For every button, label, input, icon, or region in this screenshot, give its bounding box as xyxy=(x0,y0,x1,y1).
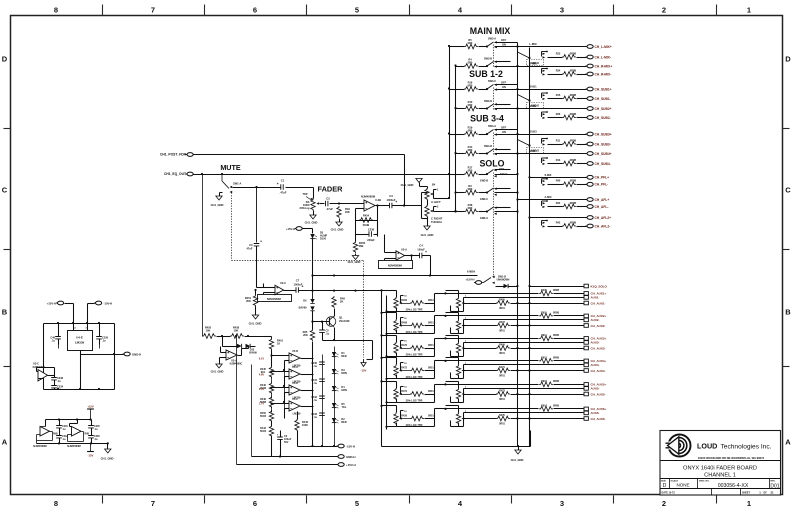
resistor R471 0R0 xyxy=(496,366,510,377)
capacitor C342 xyxy=(311,396,325,402)
svg-text:GND-C: GND-C xyxy=(480,198,488,201)
wires U5-C inputs xyxy=(272,403,290,405)
resistor R42 xyxy=(556,221,577,228)
svg-text:U-2B: U-2B xyxy=(375,198,381,202)
transistor Q1 2SA1048 xyxy=(326,316,350,328)
aux grid left bus A xyxy=(381,291,383,447)
op-amp U2-B xyxy=(361,195,381,212)
switch contact feed CH_AFL2- xyxy=(542,220,548,228)
capacitor C235 xyxy=(88,435,100,441)
wire top line row 1 xyxy=(446,293,539,295)
svg-text:5K1B: 5K1B xyxy=(260,430,266,433)
svg-text:ONYX 1640i FADER BOARD: ONYX 1640i FADER BOARD xyxy=(683,466,757,472)
svg-text:CH1_GND: CH1_GND xyxy=(331,228,344,232)
svg-text:CH1_GND: CH1_GND xyxy=(249,322,262,326)
fader TOP arrow xyxy=(302,193,312,200)
wire row 4 to mid bus xyxy=(434,361,436,371)
wire U3-A out xyxy=(238,355,242,357)
wire to connector CH_AFL2- xyxy=(548,226,563,228)
connector CH_AUX6- xyxy=(584,417,606,421)
junction post-fader node xyxy=(403,204,405,206)
svg-text:L-MIX: L-MIX xyxy=(529,42,537,46)
wire row A SUB34 xyxy=(450,134,465,136)
svg-text:-15V: -15V xyxy=(361,369,367,373)
LED D5 YEL xyxy=(332,403,347,409)
bus wire left A xyxy=(449,47,451,199)
switch contact feed CH_SUB4- xyxy=(542,157,548,165)
svg-text:0R0B: 0R0B xyxy=(570,69,577,72)
wire top line row 2 xyxy=(446,315,539,317)
capacitor C236 feedback xyxy=(367,228,375,243)
wires U5-D inputs xyxy=(272,387,290,389)
wire pot2 wiper out xyxy=(464,412,584,414)
resistor R5 0R0 xyxy=(464,38,478,49)
wire to connector CH_PFL- xyxy=(548,184,563,186)
connector CH_SUB2- xyxy=(586,116,611,120)
svg-text:CH_SUB1-: CH_SUB1- xyxy=(595,97,611,101)
svg-text:+: + xyxy=(425,250,427,254)
svg-text:SW3-D: SW3-D xyxy=(484,100,492,103)
svg-text:CH_AFL2-: CH_AFL2- xyxy=(595,224,611,228)
resistor R426 0R01 xyxy=(401,415,434,421)
wire U2-A out to mute-B xyxy=(431,275,478,277)
svg-text:R473: R473 xyxy=(499,389,505,392)
resistor R472 0R01 xyxy=(401,367,434,373)
svg-text:+15V-H: +15V-H xyxy=(47,302,56,306)
svg-text:R472: R472 xyxy=(401,367,407,370)
resistor R408 0R01 xyxy=(401,322,434,328)
wire to connector CH_SUB3+ xyxy=(495,134,587,136)
svg-text:GND-H: GND-H xyxy=(346,455,355,459)
svg-text:+: + xyxy=(302,285,304,289)
svg-text:Technologies Inc.: Technologies Inc. xyxy=(721,444,772,451)
svg-text:U5-D: U5-D xyxy=(292,382,298,385)
svg-text:OF: OF xyxy=(763,492,767,495)
LED D5 xyxy=(310,232,327,241)
svg-text:THC/BAL: THC/BAL xyxy=(431,220,443,224)
svg-text:SW3-B: SW3-B xyxy=(484,57,492,60)
svg-text:R405: R405 xyxy=(499,298,505,301)
ground CH1_GND pan bottom xyxy=(427,217,429,227)
LED D1 RED xyxy=(332,352,347,358)
wires U2-A input xyxy=(385,252,397,254)
wire bottom line row 6 xyxy=(530,418,584,420)
svg-text:DWG. NO.: DWG. NO. xyxy=(699,481,710,483)
svg-text:CH1_GND: CH1_GND xyxy=(101,457,114,461)
svg-text:AUX3-: AUX3- xyxy=(591,341,600,345)
wires resistor row xyxy=(202,175,204,337)
svg-text:6: 6 xyxy=(253,6,257,15)
ground CH1_GND R451 xyxy=(252,315,258,319)
wire +15V to rail xyxy=(65,303,74,305)
column tick marks top xyxy=(102,5,104,16)
svg-text:LM339: LM339 xyxy=(293,413,301,416)
resistor R19 0R0 xyxy=(464,126,478,137)
svg-text:CH_AFL+: CH_AFL+ xyxy=(595,198,610,202)
svg-text:0R0B: 0R0B xyxy=(553,380,559,383)
gang dashed link xyxy=(493,133,495,155)
svg-text:0R01: 0R01 xyxy=(428,344,434,347)
gang lever second switch xyxy=(518,95,530,101)
svg-text:R15: R15 xyxy=(556,94,561,97)
svg-text:10K: 10K xyxy=(234,329,239,333)
aux row 4 pot R472 xyxy=(382,357,397,359)
connector CH_AUX4+ xyxy=(584,359,607,363)
wire row A SUB12 xyxy=(450,89,465,91)
capacitor C234 xyxy=(51,385,63,391)
svg-text:SHEET: SHEET xyxy=(742,492,751,495)
resistor R48 2K xyxy=(332,296,346,308)
svg-text:CH_AUX6-: CH_AUX6- xyxy=(591,417,606,421)
svg-text:SUB4: SUB4 xyxy=(529,149,537,153)
junction dots buses xyxy=(516,107,518,109)
resistor R911 0R0B xyxy=(539,334,559,341)
capacitor C3 1000uF output xyxy=(387,194,398,208)
resistor R450 xyxy=(260,410,274,422)
resistor R914 0R0B xyxy=(539,405,559,412)
svg-text:CH_SUB2+: CH_SUB2+ xyxy=(595,107,612,111)
svg-text:20% LOG TPR: 20% LOG TPR xyxy=(406,376,423,379)
svg-text:OFF: OFF xyxy=(501,80,507,84)
svg-text:100K: 100K xyxy=(302,424,308,427)
buffer feedback wires xyxy=(48,375,55,377)
title block xyxy=(660,431,781,496)
connector CH_SUB1- xyxy=(586,97,611,101)
connector CH_AFL2- xyxy=(586,224,611,228)
svg-text:RED: RED xyxy=(341,355,346,358)
svg-text:C2: C2 xyxy=(326,197,330,201)
svg-text:+: + xyxy=(277,433,279,437)
resistor R407 0R0 xyxy=(496,321,510,332)
svg-text:SUB1: SUB1 xyxy=(529,85,537,89)
svg-text:LM339: LM339 xyxy=(75,341,85,345)
svg-text:BAV99: BAV99 xyxy=(299,307,307,310)
op-amp U3-A xyxy=(226,350,243,366)
svg-text:0R0B: 0R0B xyxy=(570,202,577,205)
svg-text:0R0B: 0R0B xyxy=(570,52,577,55)
wire bottom line row 5 xyxy=(530,394,584,396)
svg-text:U2-C: U2-C xyxy=(280,281,286,285)
ground CH1_GND aux rail xyxy=(518,447,520,451)
svg-text:B: B xyxy=(2,308,8,317)
aux row 6 pot R426 xyxy=(382,405,397,407)
wiper aux row 2 xyxy=(399,324,402,326)
switch contact feed CH_SUB2- xyxy=(542,111,548,119)
svg-text:CH_R-MIX+: CH_R-MIX+ xyxy=(595,64,613,68)
svg-text:0R0B: 0R0B xyxy=(570,139,577,142)
connector CH_L-MIX+ xyxy=(586,45,612,49)
svg-text:0R0B: 0R0B xyxy=(570,113,577,116)
wire OFF stub row A xyxy=(495,84,518,86)
resistor R455 10K xyxy=(202,326,216,339)
wire OFF stub row A xyxy=(495,42,518,44)
connector CH_SUB3- xyxy=(586,142,611,146)
resistor R3 xyxy=(464,184,478,195)
svg-text:R44: R44 xyxy=(556,202,561,205)
svg-text:.1u: .1u xyxy=(314,382,318,385)
svg-text:U5-C: U5-C xyxy=(292,398,298,401)
aux row 1 pot2 R405 xyxy=(446,290,459,292)
resistor R474 0R01 xyxy=(401,390,434,396)
resistor R16 0R0 xyxy=(464,81,478,92)
svg-text:0R01: 0R01 xyxy=(428,322,434,325)
wire row 3 to mid bus xyxy=(434,339,436,349)
svg-text:ORN: ORN xyxy=(341,372,347,375)
wire Q1 emitter to -15V xyxy=(334,328,336,341)
resistor R446b 100K xyxy=(295,419,309,431)
svg-text:0R0: 0R0 xyxy=(468,148,473,152)
capacitor C4 100uF xyxy=(417,244,427,259)
wire diode chain xyxy=(312,291,314,300)
svg-text:2K4B: 2K4B xyxy=(363,223,370,227)
resistor R13 xyxy=(556,159,577,166)
wire to connector CH_SUB1+ xyxy=(495,89,587,91)
svg-text:K1Q_SOLO: K1Q_SOLO xyxy=(591,284,608,288)
svg-text:CH1_EQ_OUT: CH1_EQ_OUT xyxy=(164,172,186,176)
svg-text:CH_SUB2-: CH_SUB2- xyxy=(595,116,611,120)
resistor R910 0R0B xyxy=(539,312,559,319)
svg-text:TOP: TOP xyxy=(302,193,307,196)
svg-text:8: 8 xyxy=(54,6,58,15)
resistor R10 0R0 xyxy=(464,100,478,111)
svg-text:-15V: -15V xyxy=(88,454,94,458)
wire pan input xyxy=(421,193,423,219)
connector GND-H left xyxy=(123,352,142,356)
svg-text:R912: R912 xyxy=(541,357,547,360)
connector CH_AUX5- xyxy=(584,392,606,396)
capacitor C6 100uF 50V xyxy=(277,433,292,445)
svg-text:8: 8 xyxy=(54,499,58,508)
wire bottom line row 2 xyxy=(530,325,584,327)
wire to connector CH_R-MIX+ xyxy=(495,66,587,68)
connector CH_SUB4+ xyxy=(586,152,612,156)
svg-text:0R01: 0R01 xyxy=(428,390,434,393)
aux grid left bus B xyxy=(386,296,388,430)
switch SW3-D xyxy=(484,100,497,110)
svg-text:U5-B: U5-B xyxy=(292,350,298,353)
svg-text:NJM4580M: NJM4580M xyxy=(67,444,80,448)
connector AUX6- xyxy=(584,411,600,415)
svg-text:REV.: REV. xyxy=(771,481,776,483)
svg-text:SUB2: SUB2 xyxy=(529,104,537,108)
svg-text:3.4V: 3.4V xyxy=(259,388,264,391)
svg-text:.1u: .1u xyxy=(102,339,106,342)
svg-text:0R01: 0R01 xyxy=(499,374,505,377)
svg-text:CH1_GND: CH1_GND xyxy=(348,260,361,264)
svg-text:C: C xyxy=(785,186,791,195)
resistor R406 0R01 xyxy=(401,299,434,305)
resistor R44 xyxy=(556,202,577,209)
connector AUX1- xyxy=(584,296,600,300)
svg-text:5: 5 xyxy=(355,6,359,15)
svg-text:R408: R408 xyxy=(401,322,407,325)
svg-text:NONE: NONE xyxy=(676,483,689,488)
wire pot2 wiper out xyxy=(464,388,584,390)
svg-text:CH_L-MIX+: CH_L-MIX+ xyxy=(595,45,612,49)
svg-text:+: + xyxy=(277,182,279,186)
svg-text:D01: D01 xyxy=(770,484,779,490)
aux row 5 pot R474 xyxy=(382,381,397,383)
resistor R26 xyxy=(556,113,577,120)
svg-text:C: C xyxy=(2,186,8,195)
wire pot2 wiper out xyxy=(464,319,584,321)
svg-text:100uF: 100uF xyxy=(417,248,425,252)
IC U4-E LM339 box xyxy=(68,331,93,351)
potentiometer RA fader xyxy=(300,199,316,211)
aux row 1 pot R406 xyxy=(382,290,397,292)
resistor R476 0R01 xyxy=(401,344,434,350)
connector AUX4- xyxy=(584,363,600,367)
svg-text:CH_AUX3-: CH_AUX3- xyxy=(591,346,606,350)
svg-text:CH_AUX1-: CH_AUX1- xyxy=(591,301,606,305)
svg-text:CH_SUB3-: CH_SUB3- xyxy=(595,142,611,146)
wire main lower rail y275 xyxy=(313,275,431,277)
svg-text:+15V-H: +15V-H xyxy=(286,227,295,231)
svg-text:NJM4580C: NJM4580C xyxy=(230,363,243,366)
capacitor C5 xyxy=(319,330,329,336)
svg-text:CH1_POST_FDR: CH1_POST_FDR xyxy=(160,153,187,157)
wire row 6 to mid bus xyxy=(434,409,436,419)
svg-text:0R0: 0R0 xyxy=(468,83,473,87)
svg-text:C7: C7 xyxy=(296,279,300,283)
column tick marks bottom xyxy=(102,496,104,504)
wire Q1 base xyxy=(313,321,330,323)
resistor R14 0R0 xyxy=(464,145,478,156)
svg-text:CH_AUX4-: CH_AUX4- xyxy=(591,369,606,373)
pan pot lower half Q5 xyxy=(425,200,439,218)
diode D12 xyxy=(237,344,242,348)
wiper aux row 6 xyxy=(399,417,402,419)
svg-text:+15V-H: +15V-H xyxy=(346,463,356,467)
resistor R405 0R0 xyxy=(496,298,510,309)
resistor R40 xyxy=(556,180,577,187)
wire OFF stub row B xyxy=(495,61,511,63)
svg-text:RED: RED xyxy=(341,421,346,424)
connector CH_AUX2+ xyxy=(584,314,607,318)
svg-text:A: A xyxy=(2,438,8,447)
wire to connector CH_AFL+ xyxy=(518,199,587,201)
aux row 3 pot R476 xyxy=(382,335,397,337)
svg-text:B: B xyxy=(785,308,791,317)
svg-text:C236: C236 xyxy=(368,228,375,232)
svg-text:DATE 10-73: DATE 10-73 xyxy=(662,492,676,495)
svg-text:CH1_GND: CH1_GND xyxy=(401,183,414,187)
switch contact feed CH_L-MIX- xyxy=(542,51,548,59)
svg-text:C4: C4 xyxy=(419,244,423,248)
svg-text:7: 7 xyxy=(151,499,155,508)
svg-text:20% LOG TPR: 20% LOG TPR xyxy=(406,331,423,334)
svg-text:CH1_GND: CH1_GND xyxy=(211,203,224,207)
svg-text:CH1_GND: CH1_GND xyxy=(421,233,434,237)
svg-text:R42: R42 xyxy=(556,221,561,224)
resistor R461 1K xyxy=(269,338,283,350)
switch SW3-B xyxy=(484,57,497,67)
wire to connector CH_SUB2- xyxy=(548,117,563,119)
wire to connector CH_SUB3- xyxy=(548,144,563,146)
wire pot2 wiper out xyxy=(464,364,584,366)
gang dashed link xyxy=(493,45,495,68)
svg-text:CH_AUX5-: CH_AUX5- xyxy=(591,392,606,396)
svg-text:.1u: .1u xyxy=(326,333,330,336)
svg-text:-15V-H: -15V-H xyxy=(346,444,355,448)
svg-text:R911: R911 xyxy=(541,334,547,337)
svg-text:CH1_GND: CH1_GND xyxy=(211,370,224,374)
op-amp U3-C buffer xyxy=(33,362,48,382)
svg-text:R26: R26 xyxy=(556,113,561,116)
svg-text:003056-4-XX: 003056-4-XX xyxy=(718,483,749,489)
wire CH1_EQ_OUT xyxy=(194,174,457,176)
gang lever second switch xyxy=(518,52,530,58)
svg-text:D: D xyxy=(663,483,667,489)
svg-text:SUB3: SUB3 xyxy=(529,130,537,134)
svg-text:56B: 56B xyxy=(359,244,364,248)
svg-text:.1u: .1u xyxy=(62,438,66,441)
svg-text:S-MIX: S-MIX xyxy=(545,174,552,177)
svg-text:5: 5 xyxy=(355,499,359,508)
switch SW1-B xyxy=(482,276,510,284)
connector CH_R-MIX- xyxy=(586,72,612,76)
svg-text:R910: R910 xyxy=(541,312,547,315)
diode D14 xyxy=(496,286,504,288)
power block outer loop xyxy=(43,324,45,390)
connector CH_SUB2+ xyxy=(586,107,612,111)
wire pot2 wiper out xyxy=(464,297,584,299)
resistor R409 0R0B xyxy=(539,289,559,296)
wire to connector CH_L-MIX+ xyxy=(495,46,587,48)
svg-text:NJM4580M: NJM4580M xyxy=(361,195,376,199)
switch contact feed CH_PFL- xyxy=(542,178,548,186)
svg-text:MAIN MIX: MAIN MIX xyxy=(470,26,511,36)
connector CH1_EQ_OUT xyxy=(164,172,193,176)
wire bottom line row 3 xyxy=(530,348,584,350)
svg-text:CH_R-MIX-: CH_R-MIX- xyxy=(595,72,612,76)
svg-text:1.7V: 1.7V xyxy=(259,402,264,405)
svg-text:D: D xyxy=(785,55,791,64)
connector CH_AUX4- xyxy=(584,369,606,373)
svg-text:OFF: OFF xyxy=(501,125,507,129)
wire to connector CH_AFL- xyxy=(548,206,563,208)
svg-text:A-MIX: A-MIX xyxy=(544,196,551,199)
svg-text:0R0B: 0R0B xyxy=(570,94,577,97)
svg-text:U3-C: U3-C xyxy=(33,362,39,366)
svg-text:U4-E: U4-E xyxy=(76,336,83,340)
svg-text:6 NDH: 6 NDH xyxy=(467,270,475,274)
connector AUX2- xyxy=(584,318,600,322)
row tick marks right xyxy=(783,128,790,130)
svg-text:R913: R913 xyxy=(541,380,547,383)
wire to connector CH_SUB2+ xyxy=(495,108,587,110)
gang dashed solo chain xyxy=(493,173,495,279)
LOUD Technologies logo xyxy=(663,435,691,457)
switch SW3-A xyxy=(486,38,507,49)
aux row 4 pot2 R471 xyxy=(446,357,459,359)
svg-text:C RIGHT: C RIGHT xyxy=(431,217,443,221)
op-amp U2-C meter buffer xyxy=(275,281,286,295)
svg-text:.1u: .1u xyxy=(51,339,55,342)
svg-text:50V: 50V xyxy=(284,441,289,444)
svg-text:2: 2 xyxy=(662,499,666,508)
svg-text:6: 6 xyxy=(253,499,257,508)
svg-text:R407: R407 xyxy=(499,321,505,324)
svg-text:0R0: 0R0 xyxy=(468,60,473,64)
switch SW2-C solo xyxy=(486,207,497,215)
wire -15V-H rail xyxy=(298,446,338,448)
wire to connector CH_SUB4- xyxy=(548,163,563,165)
svg-text:5K1B: 5K1B xyxy=(260,415,266,418)
mix bus 2 vertical xyxy=(529,48,531,447)
capacitor C2 xyxy=(326,197,334,212)
connector CH_AFL- xyxy=(586,205,609,209)
